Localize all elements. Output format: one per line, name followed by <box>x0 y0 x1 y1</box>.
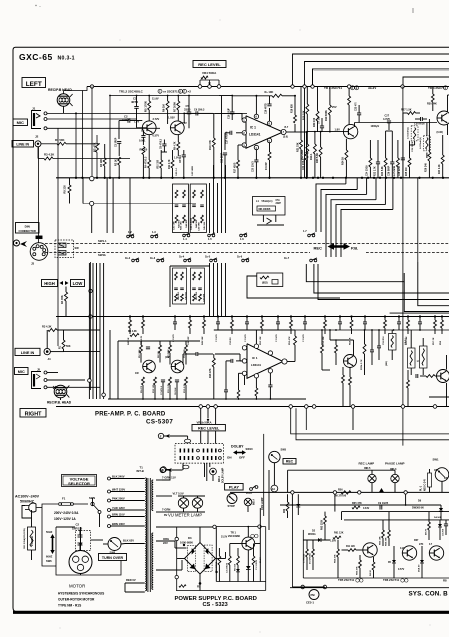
pot wires 2 <box>200 408 202 424</box>
TURN OVER label box <box>99 554 127 561</box>
wire J1 tip <box>47 112 247 114</box>
svg-text:BRN 100V: BRN 100V <box>112 522 125 526</box>
svg-text:1b-3: 1b-3 <box>150 257 156 260</box>
L1b trap box lower <box>257 273 283 287</box>
diode D6 vertical <box>440 505 442 508</box>
svg-text:DOLBY: DOLBY <box>231 445 244 449</box>
wire bridge right <box>216 558 226 560</box>
svg-text:R1 50K: R1 50K <box>55 138 64 142</box>
svg-text:1.8V: 1.8V <box>335 128 341 132</box>
wire J1 sleeve <box>47 127 160 129</box>
wires pots to connector <box>200 431 202 444</box>
right ch passives top <box>130 334 139 337</box>
inductor bracket L4b <box>420 346 428 368</box>
svg-text:1.38V: 1.38V <box>330 541 336 543</box>
wire IC2 input <box>215 353 240 355</box>
svg-text:C52 33K: C52 33K <box>323 336 325 345</box>
wire gray y203.5 <box>83 203 196 205</box>
svg-text:8V: 8V <box>164 513 167 517</box>
motor box outline <box>56 527 121 575</box>
IC2 pin5 network <box>269 373 271 385</box>
IC1 pin 2 <box>242 131 246 135</box>
svg-text:DIN: DIN <box>25 224 30 228</box>
LEFT channel label box <box>22 78 46 88</box>
svg-text:4R7D: 4R7D <box>131 100 138 104</box>
svg-text:0.57V: 0.57V <box>153 135 160 138</box>
sys-con wire rails <box>302 530 304 578</box>
svg-text:ORG: ORG <box>163 537 169 541</box>
power board left rail <box>176 527 178 591</box>
svg-text:C3 220/25: C3 220/25 <box>226 562 228 573</box>
svg-text:R6 560: R6 560 <box>235 563 237 571</box>
svg-text:D1 W060A: D1 W060A <box>309 553 312 564</box>
wire line-in J2 down to DIN <box>38 147 40 243</box>
wire right edge elbows <box>390 312 449 314</box>
svg-text:HYSTERESIS SYNCHRONOUS: HYSTERESIS SYNCHRONOUS <box>58 592 104 596</box>
rec level label box 2 <box>192 425 225 431</box>
svg-text:R66 47K: R66 47K <box>356 566 359 575</box>
svg-text:R22 2.7K: R22 2.7K <box>374 166 376 176</box>
svg-text:TURN OVER: TURN OVER <box>102 556 124 560</box>
line-in jack J4 <box>44 348 50 354</box>
wire IC1 out right <box>286 131 295 133</box>
resistor row under bus y316 <box>129 320 132 328</box>
transistor TR6 <box>402 546 416 560</box>
svg-text:SW1b: SW1b <box>98 253 106 257</box>
op-amp IC2 LD3141 triangle <box>247 344 283 379</box>
svg-text:C 10/25: C 10/25 <box>303 334 305 342</box>
svg-text:H: H <box>417 360 419 363</box>
svg-text:STOP: STOP <box>228 504 235 508</box>
primary taps <box>111 478 145 480</box>
svg-text:RED 0V: RED 0V <box>126 578 136 582</box>
capacitor C3 3R0P <box>117 141 121 143</box>
resistor R11 2.7K <box>171 160 174 168</box>
diode D2 regulator <box>246 566 251 569</box>
IC1 pin 6-7 output <box>281 129 286 134</box>
svg-text:C1 100/25: C1 100/25 <box>256 559 258 570</box>
svg-text:or 2SC871: or 2SC871 <box>163 90 178 94</box>
svg-text:R30 24K: R30 24K <box>427 103 437 106</box>
resistor R64 47K <box>337 549 340 557</box>
svg-text:CS-5307: CS-5307 <box>146 419 173 426</box>
svg-text:R₀ 10K: R₀ 10K <box>265 90 274 94</box>
svg-text:J4: J4 <box>48 357 52 361</box>
jack J1 contacts <box>44 112 47 115</box>
junction dots y399 <box>142 398 144 400</box>
wire lamp bus drops <box>291 494 293 505</box>
svg-text:C20 100/3: C20 100/3 <box>253 161 255 172</box>
svg-text:55mH(L1): 55mH(L1) <box>262 200 273 203</box>
svg-text:3.72V: 3.72V <box>153 117 160 121</box>
svg-text:C41 50P: C41 50P <box>173 221 176 230</box>
IC1 pin 1 <box>242 118 246 122</box>
svg-text:R3 4.3K: R3 4.3K <box>44 153 54 157</box>
wire vertical x76 <box>75 113 77 177</box>
svg-text:1-6: 1-6 <box>240 237 244 241</box>
svg-text:C2: C2 <box>76 523 80 527</box>
wire x306 down <box>305 408 307 430</box>
svg-text:50HZ: 50HZ <box>46 530 53 534</box>
svg-text:R64 47K: R64 47K <box>334 554 337 563</box>
resistor R32 collector <box>348 96 351 105</box>
transistor TR1 regulator <box>242 537 255 550</box>
junction circles bottom <box>301 585 305 589</box>
svg-text:1000µV: 1000µV <box>371 125 380 128</box>
svg-text:R21 33K: R21 33K <box>296 142 299 152</box>
svg-text:WHT 220V: WHT 220V <box>112 487 125 491</box>
diode D8 <box>392 560 396 563</box>
svg-text:C30 R/16: C30 R/16 <box>414 123 425 126</box>
svg-text:(3.6): (3.6) <box>283 136 288 139</box>
svg-text:R62: R62 <box>284 508 286 513</box>
EQ network box 2 <box>190 184 206 233</box>
line in jack J2 <box>35 141 41 147</box>
record switch SW5 <box>269 451 280 462</box>
svg-text:60HZ: 60HZ <box>46 555 53 559</box>
svg-text:R16 47K: R16 47K <box>209 140 212 150</box>
junction node bus y316 left <box>89 289 92 292</box>
svg-text:R68 20K: R68 20K <box>386 537 388 546</box>
wire top bus 1 <box>293 54 449 87</box>
svg-text:C3 3R0P: C3 3R0P <box>115 137 117 147</box>
regulator top wire <box>247 527 249 538</box>
svg-text:1-5: 1-5 <box>208 237 212 241</box>
svg-text:REC LEVEL: REC LEVEL <box>198 62 221 67</box>
lamp top wires <box>371 470 373 474</box>
IC1 pin 5 <box>267 138 271 142</box>
bias trap wires <box>262 215 264 222</box>
svg-text:R10 150: R10 150 <box>153 384 155 393</box>
svg-text:C45 33K: C45 33K <box>203 221 206 230</box>
svg-text:R39 100: R39 100 <box>313 117 316 127</box>
svg-text:(882): (882) <box>262 282 268 285</box>
wire TR3 base <box>307 131 343 133</box>
ground jack at frame <box>14 240 20 246</box>
resistor R9 470 <box>148 160 151 168</box>
lower component row TR3 stage <box>369 158 372 167</box>
svg-text:D: D <box>179 91 181 94</box>
wire bridge bottom <box>199 574 201 583</box>
wire bundle upper left <box>129 178 131 237</box>
svg-text:OUTER-ROTOR MOTOR: OUTER-ROTOR MOTOR <box>58 598 95 602</box>
svg-text:PRE-AMP. P. C. BOARD: PRE-AMP. P. C. BOARD <box>95 412 166 418</box>
svg-text:R5 4.3K: R5 4.3K <box>128 330 137 333</box>
svg-text:R34 1K: R34 1K <box>342 157 345 165</box>
wire x353 x403 down <box>352 408 354 430</box>
capacitor C9 coupling <box>195 111 197 115</box>
svg-text:R2 1K: R2 1K <box>114 159 117 166</box>
svg-text:C7 47/6.3: C7 47/6.3 <box>160 385 163 395</box>
transformer secondary winding lower <box>152 533 153 589</box>
svg-text:R5 220: R5 220 <box>63 185 67 194</box>
svg-text:C4 10P: C4 10P <box>317 116 320 124</box>
svg-text:CE5-1: CE5-1 <box>306 601 314 605</box>
svg-text:REC: REC <box>286 460 294 464</box>
EQ network box 1 <box>173 184 189 233</box>
svg-text:REC LEVEL: REC LEVEL <box>198 427 220 431</box>
svg-text:1b-2: 1b-2 <box>125 257 131 260</box>
circuit breaker CB1 <box>28 527 36 550</box>
power board right outline <box>265 527 267 591</box>
IC2 pin9 up <box>255 330 257 344</box>
wire head right down <box>60 398 62 400</box>
wire J1 ring <box>47 118 136 120</box>
svg-text:J1: J1 <box>32 107 36 111</box>
svg-text:R5 170K: R5 170K <box>139 349 141 358</box>
transistor TR2b <box>171 360 184 373</box>
MIC label box right ch <box>15 368 29 375</box>
svg-text:C43 G-0223: C43 G-0223 <box>190 217 193 230</box>
IC1 pin 9 top <box>254 114 258 118</box>
svg-text:R66 10K: R66 10K <box>380 536 382 545</box>
svg-text:MIC: MIC <box>18 370 25 374</box>
wire bridge left <box>177 558 185 560</box>
svg-text:R63 120K: R63 120K <box>322 519 324 530</box>
MIC label box (left) <box>13 119 28 126</box>
svg-text:CS - 5323: CS - 5323 <box>203 602 228 608</box>
IC2 pin circles <box>242 346 246 350</box>
svg-text:R20 5.6K: R20 5.6K <box>316 153 319 163</box>
inductor bracket 882 <box>389 334 397 351</box>
svg-text:PLAY: PLAY <box>229 485 240 490</box>
svg-text:222P: 222P <box>276 203 282 205</box>
junction dots main bus <box>109 95 111 97</box>
bridge diode arrows <box>189 548 195 554</box>
connector block dashed box <box>175 444 224 464</box>
svg-text:E: E <box>160 434 162 438</box>
svg-text:TR1,2 2SC458LC: TR1,2 2SC458LC <box>119 90 144 94</box>
bridge polarity marks <box>183 544 185 546</box>
svg-text:R1b 1: R1b 1 <box>310 153 313 160</box>
svg-text:REC: REC <box>314 246 323 251</box>
capacitor C7 47/6.3 <box>162 143 166 145</box>
svg-text:R23 5.6K: R23 5.6K <box>382 166 384 176</box>
svg-text:R3 4.3K: R3 4.3K <box>42 325 52 329</box>
long vertical x417.8 <box>417 178 419 262</box>
diode D10 right <box>438 524 442 527</box>
svg-text:1b-4: 1b-4 <box>179 256 185 259</box>
svg-text:33/25: 33/25 <box>184 108 191 112</box>
resistor R19 33K right of IC1 <box>300 140 303 149</box>
svg-text:2SC1096K: 2SC1096K <box>228 535 240 538</box>
inductor bracket L3b <box>408 348 416 368</box>
svg-text:D: D <box>351 87 353 90</box>
svg-text:C46 R22: C46 R22 <box>185 291 188 300</box>
wire TR2 collector up <box>183 113 185 123</box>
svg-text:MR.180KB: MR.180KB <box>259 208 271 211</box>
lamp IND.4 <box>244 498 252 506</box>
bus wire y316 <box>56 316 449 318</box>
wire motor top <box>80 527 82 551</box>
svg-text:1b-5: 1b-5 <box>205 256 211 259</box>
svg-text:R4 470/0.3: R4 470/0.3 <box>145 156 148 168</box>
tap RED 0V <box>125 582 145 584</box>
svg-text:SW1-1: SW1-1 <box>98 239 107 243</box>
svg-text:BLK 240V: BLK 240V <box>112 474 125 478</box>
svg-text:1-7: 1-7 <box>303 229 307 233</box>
transformer primary winding <box>145 478 146 591</box>
function dashed line lower <box>45 252 310 254</box>
wire top bus 2 <box>305 62 449 87</box>
junction dots bus y178 <box>75 177 77 179</box>
pause jewel triangle <box>379 488 384 492</box>
junction dots bus y316 <box>129 315 131 317</box>
svg-text:R4 35K: R4 35K <box>60 295 64 304</box>
tap BLK 60V <box>125 543 145 545</box>
svg-text:R17 41K5: R17 41K5 <box>233 162 236 173</box>
transformer secondary winding upper <box>152 480 153 511</box>
junction circles y492 <box>291 491 294 494</box>
wire to bridge <box>174 541 176 548</box>
svg-text:22V: 22V <box>163 541 168 545</box>
earth terminal E lower <box>160 467 165 472</box>
wire x107 x113 down to switch row <box>106 178 108 233</box>
capacitor C5 330/16 <box>218 556 221 565</box>
svg-text:D3: D3 <box>188 536 192 540</box>
svg-text:C: C <box>159 91 161 94</box>
svg-text:C17 47UF/4: C17 47UF/4 <box>226 131 229 144</box>
scan speck top right <box>412 8 414 13</box>
svg-text:E: E <box>162 468 164 472</box>
jack J5 contacts <box>44 371 47 374</box>
resistor R8 200 <box>142 147 145 155</box>
resistor R1b 1 <box>313 144 316 154</box>
resistor R10 150 <box>160 160 163 168</box>
svg-text:IND.6: IND.6 <box>219 475 221 482</box>
svg-text:R52 12K: R52 12K <box>260 336 262 345</box>
svg-text:C 10/25: C 10/25 <box>245 334 247 342</box>
svg-text:C44 3R3: C44 3R3 <box>185 219 188 228</box>
DIN connector socket J3 <box>30 243 48 261</box>
svg-text:TR5 2SCT11: TR5 2SCT11 <box>338 578 355 582</box>
svg-text:C50 R8: C50 R8 <box>230 337 232 345</box>
svg-text:0.001: 0.001 <box>139 139 146 143</box>
wire top bus 3 (heavy) <box>313 69 449 87</box>
wire IC1 pin3 <box>238 144 242 146</box>
power switch SW1 circle <box>435 468 449 482</box>
svg-text:TR 3 2SC711: TR 3 2SC711 <box>324 86 342 90</box>
wire line-in to R1 <box>41 143 57 145</box>
resistor R19 600K <box>328 105 331 115</box>
svg-text:C55 R16: C55 R16 <box>383 336 385 345</box>
svg-text:R6 1M: R6 1M <box>158 351 160 358</box>
svg-text:R54 1K: R54 1K <box>348 337 351 345</box>
svg-text:R53 47K: R53 47K <box>288 336 291 345</box>
capacitor C23 4700 <box>357 112 361 114</box>
svg-text:C23 470: C23 470 <box>354 102 357 111</box>
svg-text:R5 200: R5 200 <box>140 149 148 152</box>
svg-text:F1: F1 <box>62 497 66 501</box>
wire vertical x82.4 <box>81 91 83 178</box>
svg-text:R8 4.7K: R8 4.7K <box>174 141 177 150</box>
svg-text:AC100V~240V: AC100V~240V <box>15 495 40 499</box>
svg-text:C51: C51 <box>276 200 281 202</box>
earth terminal E upper <box>158 433 163 438</box>
sys-con left vertical <box>263 434 265 516</box>
wire TR2b out <box>182 354 184 365</box>
svg-text:C8 51/4: C8 51/4 <box>174 387 177 395</box>
LINE IN label box (right ch) <box>15 348 40 355</box>
svg-text:R49 56K: R49 56K <box>201 336 204 345</box>
junction circles y406 <box>199 405 203 409</box>
svg-text:200V~240V 0.5A: 200V~240V 0.5A <box>54 511 79 515</box>
scan noise specks <box>120 40 121 41</box>
svg-text:VR4 50KA: VR4 50KA <box>202 71 217 75</box>
resistor R34 1K emitter <box>345 150 348 160</box>
svg-text:1b-6: 1b-6 <box>237 256 243 259</box>
right ch rail y330 <box>295 329 449 331</box>
svg-text:B.7: B.7 <box>285 126 289 129</box>
VOLTAGE SELECTOR double box <box>62 475 97 487</box>
REC small label box <box>283 459 296 465</box>
resistor R6 100K <box>166 101 169 110</box>
svg-text:C 10/25: C 10/25 <box>216 334 218 342</box>
junction dots y330 <box>321 329 323 331</box>
vertical bundle x89-104 mid <box>88 263 90 399</box>
svg-text:VU METER LAMP: VU METER LAMP <box>168 513 202 518</box>
wire vertical x92 <box>91 87 93 178</box>
svg-text:J3: J3 <box>31 262 35 266</box>
svg-text:×2: ×2 <box>188 90 192 94</box>
capacitor C8 51/4 <box>182 154 186 156</box>
svg-text:(1W): (1W) <box>165 356 170 359</box>
wire IC2 pin3 <box>239 372 243 374</box>
playback EQ resistors left <box>173 268 187 304</box>
svg-text:0.57V: 0.57V <box>398 568 405 571</box>
ground bus wire y178 <box>56 177 449 179</box>
svg-text:C42 56R8: C42 56R8 <box>191 165 194 176</box>
transformer core <box>147 478 149 592</box>
left small components column <box>306 549 309 557</box>
capacitor C21 <box>305 152 308 160</box>
junction node y203 <box>90 201 94 205</box>
svg-text:IC 1: IC 1 <box>250 126 256 130</box>
wire ac neutral down <box>42 508 56 567</box>
svg-text:C6 47/6.3: C6 47/6.3 <box>160 138 163 149</box>
svg-text:(882): (882) <box>386 361 388 366</box>
svg-text:RIGHT: RIGHT <box>25 412 42 418</box>
svg-text:4R 2V: 4R 2V <box>425 528 428 535</box>
rec/pb head symbol right <box>54 385 67 398</box>
motor input arrow <box>79 543 82 547</box>
wire x292 down <box>291 505 293 587</box>
HIGH label box <box>42 280 58 287</box>
IC1 pin 3 <box>242 143 246 147</box>
IC2 pin2 network <box>236 360 242 362</box>
junction node bus178 big <box>90 176 94 180</box>
svg-text:R18 82K: R18 82K <box>291 104 293 113</box>
PLAY label box <box>225 484 244 491</box>
connector contacts row 2 <box>179 456 181 460</box>
lamp supply rail y470 <box>288 469 395 471</box>
right ch TR3b stage <box>344 355 357 368</box>
svg-text:REC/P.B. HEAD: REC/P.B. HEAD <box>47 400 72 404</box>
LOW label box <box>71 280 85 287</box>
svg-text:11.9V: 11.9V <box>152 97 159 101</box>
bus wire y399 <box>108 398 306 400</box>
diode D7 <box>296 504 300 507</box>
svg-text:R25 330: R25 330 <box>406 167 408 176</box>
resistor R20 5.6K <box>319 147 322 157</box>
stop switch circle <box>227 494 237 504</box>
left playback EQ cluster box wires <box>169 266 171 307</box>
wire TR4 legs <box>447 95 449 112</box>
scan speck top left <box>35 5 36 6</box>
svg-text:7-GRN 11V: 7-GRN 11V <box>162 476 176 480</box>
svg-text:SYS. CON. B: SYS. CON. B <box>409 591 449 598</box>
svg-text:0.64V: 0.64V <box>363 507 370 510</box>
